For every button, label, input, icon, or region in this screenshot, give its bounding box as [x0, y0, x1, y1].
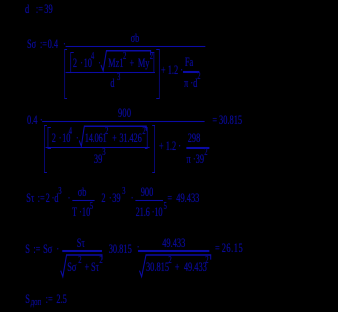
- L3 pi 39: [187, 153, 205, 166]
- L3 sup 4: [69, 127, 72, 137]
- L3 outer right paren: [152, 125, 155, 173]
- L5 :=: [33, 243, 40, 256]
- L4 result 49.433: [176, 192, 199, 205]
- L5 Ssigma: [43, 243, 52, 256]
- L2 inner fraction bar: [66, 72, 156, 73]
- L2 d cubed base: [110, 77, 114, 90]
- L4 900 num: [141, 186, 154, 199]
- L3 mult dot: [40, 114, 43, 127]
- L3 result 30.815: [219, 114, 242, 127]
- L2 dot: [80, 57, 83, 70]
- L2 main fraction bar: [66, 46, 205, 47]
- L5 Stau num: [77, 237, 85, 250]
- L2 numerator sigma-b: [131, 32, 140, 45]
- L2 outer left paren: [64, 49, 67, 99]
- L3 + 1.2 dot: [159, 140, 181, 153]
- L3 inner left paren: [48, 127, 51, 149]
- L5 first fraction bar: [62, 250, 101, 251]
- L2 sup 4: [91, 52, 94, 62]
- L2 0.4: [48, 38, 58, 51]
- L4 Stau: [26, 192, 34, 205]
- L4 T 10 den: [72, 206, 90, 219]
- L5 root plus2: [175, 261, 180, 274]
- L2 mult dot: [63, 38, 66, 51]
- L2 2: [73, 57, 77, 70]
- L5 root sup 2b: [99, 256, 102, 266]
- L2 sup 2b: [150, 52, 153, 62]
- L4 2b: [101, 192, 105, 205]
- L5 root Stau: [91, 261, 99, 274]
- L2 outer right paren: [156, 49, 159, 99]
- L2 pi d: [184, 77, 197, 90]
- L2 inner right paren: [151, 52, 154, 74]
- L2 plus: [129, 57, 134, 70]
- L5 30.815: [109, 243, 132, 256]
- L3 0.4: [27, 114, 37, 127]
- L5 second fraction bar: [138, 250, 209, 251]
- L2 + 1.2 dot: [161, 64, 183, 77]
- L2 dot2: [98, 57, 101, 70]
- L4 first fraction bar: [72, 200, 94, 201]
- L4 2: [46, 192, 50, 205]
- L2 Ssigma: [27, 38, 36, 51]
- L3 pi 39 sup 2: [204, 148, 207, 158]
- L6 S: [25, 293, 30, 306]
- L3 298: [188, 132, 201, 145]
- L3 main fraction bar: [43, 121, 205, 122]
- L3 10: [62, 132, 70, 145]
- L6 dop subscript: [31, 298, 41, 308]
- L5 result 26.15: [222, 242, 244, 255]
- L3 equals: [212, 114, 217, 127]
- L3 14.061: [85, 132, 107, 145]
- L3 numerator 900: [118, 107, 131, 120]
- L5 root plus: [85, 261, 90, 274]
- L2 pi d sup 2: [197, 72, 200, 82]
- L2 Mz1: [108, 57, 123, 70]
- L3 39 sup 3: [102, 148, 105, 158]
- L4 21.6 10 den: [136, 206, 163, 219]
- L2 sup 2a: [123, 52, 126, 62]
- L4 sigma-b num: [78, 186, 87, 199]
- L4 dot: [52, 192, 55, 205]
- L4 d: [54, 192, 58, 205]
- L2 My: [138, 57, 150, 70]
- L5 root sup 2c: [168, 256, 171, 266]
- L2 10: [84, 57, 92, 70]
- L4 equals: [167, 192, 172, 205]
- L4 39: [112, 192, 120, 205]
- L3 298 fraction bar: [186, 147, 209, 148]
- L3 dot: [59, 132, 62, 145]
- L5 S: [25, 243, 30, 256]
- L5 root sup 2a: [78, 256, 81, 266]
- L2 :=: [40, 38, 47, 51]
- L5 equals: [215, 242, 220, 255]
- L6 2.5: [56, 293, 66, 306]
- L5 root sup 2d: [205, 256, 208, 266]
- L3 sup 2b: [142, 127, 145, 137]
- L3 dot2: [76, 132, 79, 145]
- L4 d sup 3: [58, 187, 61, 197]
- L2 inner left paren: [70, 52, 73, 74]
- L3 plus: [112, 132, 117, 145]
- L5 dot2: [137, 241, 140, 254]
- L2 d sup 3: [117, 73, 120, 83]
- L1 d: [25, 3, 29, 16]
- L2 Fa fraction bar: [183, 71, 199, 72]
- L3 inner fraction bar: [45, 147, 149, 148]
- L2 Fa: [185, 56, 193, 69]
- L4 39 sup 3: [122, 187, 125, 197]
- L5 root 30.815: [146, 261, 169, 274]
- L3 inner right paren: [145, 127, 148, 149]
- L4 dot4: [131, 192, 134, 205]
- L4 :=: [38, 192, 45, 205]
- L3 outer left paren: [44, 125, 47, 173]
- L5 root 49.433: [184, 261, 207, 274]
- L1 :=: [36, 3, 43, 16]
- L4 dot3: [109, 192, 112, 205]
- L4 dot2: [68, 192, 71, 205]
- L5 49.433 num: [162, 237, 185, 250]
- L3 31.426: [119, 132, 141, 145]
- L1 39: [44, 3, 52, 16]
- L3 sup 2a: [105, 127, 108, 137]
- L5 root Ssigma: [67, 261, 76, 274]
- L5 dot: [56, 243, 59, 256]
- L3 39 base: [94, 153, 102, 166]
- L3 2: [52, 132, 56, 145]
- L4 T10 sup 5: [90, 202, 93, 212]
- L6 :=: [46, 293, 53, 306]
- L4 sup 5b: [164, 202, 167, 212]
- L4 second fraction bar: [135, 200, 163, 201]
